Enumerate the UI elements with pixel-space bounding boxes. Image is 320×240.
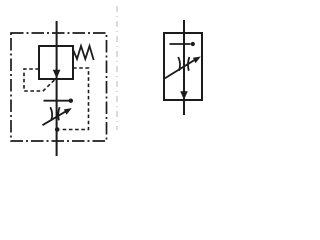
- arrowhead: flow path through compensator: [53, 70, 61, 79]
- pilot line: downstream sensing (dashed, right loop): [60, 68, 89, 130]
- junction node (pilot tap on main line): [55, 127, 60, 132]
- arrowhead: flow direction (right symbol): [180, 91, 188, 100]
- wire: main flow line through left valve: [56, 21, 58, 156]
- simplified valve body (right symbol): [164, 33, 202, 100]
- throttle orifice arcs (left symbol): [50, 107, 52, 120]
- throttle orifice arcs (right symbol): [178, 57, 180, 71]
- divider fold line: [116, 6, 118, 130]
- throttle adjustability arrow (left symbol): [43, 110, 68, 125]
- spring (compensator, right side): [73, 46, 94, 60]
- wire: flow line through right valve: [183, 20, 185, 115]
- compensator valve body (square): [39, 46, 73, 79]
- throttle adjustability arrow (right symbol): [165, 59, 197, 79]
- blocked port dot (right symbol): [191, 42, 195, 46]
- blocked port line (left symbol): [44, 100, 70, 102]
- pilot line: upstream sensing (dashed, left loop): [24, 69, 56, 91]
- blocked port line (right symbol): [170, 43, 191, 45]
- blocked port dot (left symbol): [69, 99, 73, 103]
- enclosure (dash-dot component boundary): [11, 33, 107, 141]
